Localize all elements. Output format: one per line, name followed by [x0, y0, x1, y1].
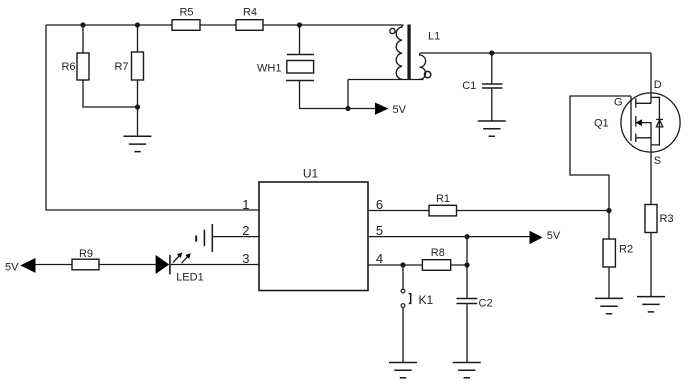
- svg-text:R4: R4: [243, 7, 257, 19]
- svg-text:G: G: [614, 97, 623, 109]
- svg-text:R8: R8: [431, 247, 445, 259]
- svg-text:R7: R7: [114, 61, 128, 73]
- svg-text:R9: R9: [79, 248, 93, 260]
- svg-text:5V: 5V: [5, 262, 19, 274]
- svg-text:C2: C2: [479, 298, 493, 310]
- svg-text:5: 5: [376, 223, 383, 238]
- svg-text:K1: K1: [419, 293, 434, 307]
- svg-text:L1: L1: [428, 31, 440, 43]
- svg-text:LED1: LED1: [176, 272, 204, 284]
- svg-text:R6: R6: [61, 61, 75, 73]
- svg-text:5V: 5V: [547, 230, 561, 242]
- svg-text:C1: C1: [462, 80, 476, 92]
- svg-text:D: D: [654, 79, 662, 91]
- svg-text:2: 2: [242, 223, 249, 238]
- svg-text:6: 6: [376, 197, 383, 212]
- svg-text:R1: R1: [436, 193, 450, 205]
- svg-text:4: 4: [376, 251, 383, 266]
- svg-text:U1: U1: [303, 167, 319, 181]
- svg-text:R5: R5: [179, 7, 193, 19]
- svg-text:S: S: [654, 155, 661, 167]
- svg-text:R2: R2: [619, 243, 633, 255]
- svg-text:R3: R3: [660, 213, 674, 225]
- svg-text:Q1: Q1: [594, 117, 609, 129]
- svg-text:3: 3: [242, 251, 249, 266]
- svg-text:5V: 5V: [393, 104, 407, 116]
- svg-text:WH1: WH1: [257, 62, 281, 74]
- svg-text:1: 1: [242, 197, 249, 212]
